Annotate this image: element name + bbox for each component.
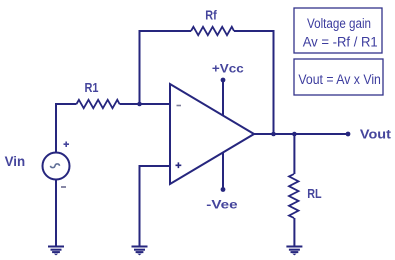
wire: left vertical from R1 corner down to source bbox=[55, 103, 57, 153]
source V1 (Vin sine source) bbox=[43, 153, 70, 180]
ground (non-inverting input) bbox=[132, 247, 148, 256]
svg-text:Voltage gain: Voltage gain bbox=[307, 16, 371, 31]
annotation box: voltage gain formula bbox=[294, 8, 382, 53]
ground (RL) bbox=[286, 247, 302, 256]
wire: RL top lead bbox=[293, 134, 295, 174]
wire: feedback top left segment bbox=[139, 30, 192, 32]
source sine squiggle bbox=[50, 164, 59, 168]
node feedback/output junction bbox=[271, 132, 276, 137]
resistor Rf bbox=[191, 27, 234, 35]
wire: source to ground bbox=[55, 180, 57, 247]
wire: feedback vertical up from inverting node bbox=[139, 31, 141, 104]
wire: -Vee supply lead bbox=[222, 153, 224, 190]
label + (source polarity) bbox=[64, 142, 70, 148]
annotation box: output formula bbox=[294, 59, 383, 95]
resistor RL bbox=[289, 174, 299, 218]
wire: output bbox=[254, 133, 348, 135]
svg-text:-Vee: -Vee bbox=[206, 197, 238, 211]
svg-text:RL: RL bbox=[307, 186, 321, 201]
label - (inverting input) bbox=[177, 105, 182, 107]
svg-text:Vout: Vout bbox=[360, 127, 392, 141]
node -Vee terminal bbox=[221, 187, 226, 192]
wire: feedback vertical down to output bbox=[273, 30, 275, 134]
svg-text:Vin: Vin bbox=[5, 154, 26, 169]
svg-text:Rf: Rf bbox=[205, 8, 217, 22]
resistor R1 bbox=[77, 100, 120, 108]
label + (non-inverting input) bbox=[176, 162, 182, 168]
wire: R1 left lead from source corner bbox=[56, 103, 77, 105]
op-amp U1 bbox=[170, 84, 254, 184]
node A (inverting input junction) bbox=[137, 102, 142, 107]
svg-text:+Vcc: +Vcc bbox=[212, 61, 244, 75]
wire: feedback top right segment bbox=[234, 30, 274, 32]
node Vout terminal bbox=[346, 132, 351, 137]
wire: R1 right lead to op-amp inverting input bbox=[120, 103, 171, 105]
wire: +Vcc supply lead bbox=[222, 80, 224, 116]
ground (source) bbox=[48, 247, 64, 256]
svg-text:Vout = Av x Vin: Vout = Av x Vin bbox=[298, 72, 381, 87]
wire: non-inverting input horizontal bbox=[140, 165, 171, 167]
svg-text:R1: R1 bbox=[85, 80, 99, 95]
node RL/output junction bbox=[292, 132, 297, 137]
wire: non-inverting input vertical to ground bbox=[139, 165, 141, 247]
svg-text:Av = -Rf / R1: Av = -Rf / R1 bbox=[303, 35, 378, 50]
node +Vcc terminal bbox=[221, 78, 226, 83]
label - (source polarity) bbox=[61, 186, 66, 188]
wire: RL bottom lead to ground bbox=[293, 218, 295, 247]
